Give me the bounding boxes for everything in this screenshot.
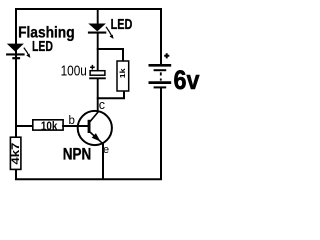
wire: LED cathode to capacitor — [97, 33, 99, 72]
wire: LED branch vertical from top rail — [97, 8, 99, 25]
wire: 4k7 bottom to bottom rail — [15, 169, 17, 180]
svg-text:100u: 100u — [61, 64, 87, 80]
svg-text:b: b — [69, 115, 75, 127]
svg-text:10k: 10k — [41, 119, 58, 133]
label: + polarity of battery — [164, 53, 169, 58]
flashing LED D1 — [6, 44, 25, 59]
battery BT1 6v — [149, 65, 172, 87]
arrow: top LED flash arrow — [106, 27, 114, 39]
transistor Q1 NPN — [78, 111, 112, 145]
wire: capacitor to transistor collector — [97, 78, 99, 113]
resistor R1 1k (box) — [117, 61, 129, 91]
svg-text:4k7: 4k7 — [10, 143, 22, 165]
wire: battery top vertical — [160, 8, 162, 65]
svg-text:LED: LED — [111, 16, 133, 33]
wire: base branch from left rail to 10k — [15, 125, 34, 127]
label: + polarity of capacitor — [90, 65, 95, 70]
wire: 1k top branch — [97, 49, 123, 62]
resistor R2 10k (box) — [33, 120, 63, 130]
arrow: flashing LED flash arrow — [24, 48, 31, 58]
svg-text:6v: 6v — [174, 65, 200, 95]
wire: 1k bottom branch to collector node — [97, 91, 124, 98]
wire: left rail vertical (top corner down through flashing LED to 4k7) — [15, 8, 17, 137]
svg-text:NPN: NPN — [63, 146, 92, 164]
wire: top supply rail — [15, 8, 162, 10]
svg-text:c: c — [99, 98, 105, 112]
wire: bottom rail — [15, 178, 162, 180]
wire: 10k to transistor base — [62, 125, 88, 127]
wire: emitter to bottom rail — [102, 143, 104, 180]
svg-text:LED: LED — [32, 39, 53, 55]
LED D2 (top indicator LED) — [88, 24, 106, 33]
resistor R3 4k7 (box) — [10, 137, 21, 169]
svg-text:1k: 1k — [118, 67, 127, 78]
capacitor C1 100u electrolytic — [89, 71, 106, 79]
wire: battery bottom vertical — [160, 87, 162, 181]
